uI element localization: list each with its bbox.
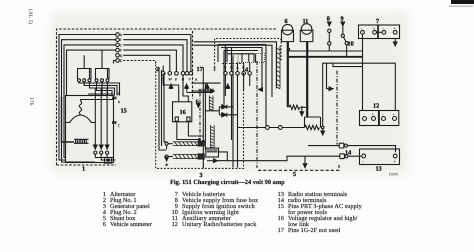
battery earth arrow (394, 39, 396, 47)
wires from plug pins to alternator (79, 82, 120, 96)
svg-text:1: 1 (82, 165, 85, 172)
svg-text:17: 17 (197, 66, 203, 73)
shunt resistor B (305, 125, 320, 129)
regulator feed wires (163, 75, 188, 102)
svg-text:A: A (118, 100, 121, 104)
svg-text:15: 15 (121, 108, 127, 115)
outer dashed enclosure right segment (192, 31, 194, 99)
wire cross-gap run b (194, 45, 273, 97)
svg-text:12: 12 (373, 103, 379, 110)
svg-text:13: 13 (376, 166, 382, 173)
pin letters F A T (118, 92, 121, 128)
svg-text:D609: D609 (389, 172, 398, 177)
wire feeder to diodes (224, 51, 258, 105)
wire top run 1 (123, 35, 191, 72)
ignition switch symbol (342, 22, 344, 27)
battery terminals (361, 30, 365, 34)
alternator phase wire 3 (106, 88, 108, 150)
shunt box 5 outline (305, 117, 321, 128)
phase pin arrows and circles (94, 147, 96, 150)
outer dashed enclosure bottom segment (57, 164, 117, 166)
voltage regulator box 16 (173, 102, 192, 122)
junction at shunt A (301, 106, 303, 108)
plug No.2 row circles (224, 72, 228, 76)
radio terminal pair (266, 126, 270, 130)
node column: terminal A (116, 33, 120, 37)
svg-text:16: 16 (180, 109, 186, 116)
alternator stator hump (66, 115, 95, 123)
diode input bracket (205, 107, 221, 115)
node column: terminal D (116, 48, 120, 52)
vehicle ammeter body (282, 30, 294, 41)
node column: terminal B (116, 38, 120, 42)
legend column 1 (92, 192, 152, 228)
vehicle battery box (359, 25, 378, 39)
hatched cable vertical lower (211, 125, 215, 149)
diode D2 (222, 113, 227, 117)
svg-text:+: + (394, 26, 396, 30)
wire long vertical to panel bottom (232, 55, 234, 167)
alternator brush comb (74, 139, 89, 143)
wire loop under 17 (191, 83, 220, 91)
pack terminals (363, 117, 367, 121)
label 3 with tick (202, 163, 204, 168)
alternator field taps (81, 94, 114, 101)
wire cross-gap run a (194, 42, 277, 88)
wire left bundle U3 (64, 45, 116, 158)
plug No.2 pin letters (224, 65, 245, 69)
svg-text:F: F (120, 49, 122, 53)
alternator phase wire 2 (100, 88, 102, 150)
scan veil over diagram (52, 12, 408, 174)
panel junction blob (198, 138, 201, 141)
battery feed wire down to pack (362, 34, 364, 110)
pins 17 sub-box bottom with hatch (187, 89, 213, 93)
svg-text:5: 5 (293, 171, 296, 178)
radio station terminal box 13 (360, 149, 400, 165)
svg-text:A: A (120, 33, 123, 37)
plug No.1 riser wires (162, 66, 164, 72)
diode D1 (222, 105, 227, 109)
scan artifact: grey smudge under bar (449, 6, 473, 7)
wire top run 2 (123, 40, 187, 72)
plug No.2 riser wires (225, 45, 255, 72)
wire left bundle U2 (62, 40, 116, 162)
node column: terminal C (116, 43, 120, 47)
plug No.1 row circles (161, 72, 165, 76)
plug P2 (right bracket) (96, 50, 110, 79)
junction at shunt B (321, 126, 324, 129)
legend column 3 (270, 192, 362, 234)
regulator terminals (175, 117, 178, 121)
plug No.2 nested feeder b (221, 48, 262, 90)
pack supply loop (323, 63, 396, 126)
plug P2 pin circles (95, 79, 98, 82)
branch to shunt box with arrow (304, 156, 306, 168)
wire top run 3 (123, 45, 183, 72)
panel inner vertical pair (203, 67, 205, 168)
svg-text:F: F (118, 92, 120, 96)
small pin arrows under row 2 (170, 84, 173, 89)
svg-text:9: 9 (341, 16, 344, 23)
panel dash-dot spine (199, 93, 201, 137)
alternator field L-bar (62, 97, 75, 142)
shunt feed box (206, 148, 219, 157)
wire top run 5 (long vertical) (123, 55, 170, 71)
hatched cable top right (276, 46, 280, 89)
svg-text:W: W (168, 77, 172, 81)
legend column 2 (160, 192, 258, 228)
scan artifact: black bar top right (451, 0, 474, 4)
wire feeder to radio terminal pair (265, 45, 267, 126)
cable strip lower with connectors (173, 154, 198, 158)
wire top run 4 with link arrow (123, 50, 176, 71)
svg-text:F: F (175, 77, 177, 81)
arrowed wire to radio connectors (207, 160, 218, 162)
panel pin arrows lower left (166, 145, 168, 161)
phase bus (95, 154, 115, 160)
plug P1 (left bracket) (78, 55, 92, 79)
wire top run 6 dashed to panel (123, 61, 156, 65)
svg-text:V: V (188, 77, 191, 81)
svg-text:+: + (372, 113, 374, 117)
margin text (AL 5) rotated (27, 9, 33, 24)
alternator terminal bars right edge (112, 97, 117, 123)
pin letters for column (120, 33, 123, 63)
plug No.2 drop wires (225, 75, 249, 167)
svg-text:3: 3 (200, 172, 203, 179)
hatched cable vertical upper (209, 96, 213, 111)
outer dashed enclosure (vehicle boundary) (57, 29, 278, 165)
wire ammeters to battery (289, 56, 363, 58)
plug No.2 dashed box (215, 39, 281, 72)
pack second feeder (333, 63, 363, 66)
pass-through box on border (105, 158, 112, 164)
connector 14a (339, 143, 344, 148)
margin page number 176 rotated (28, 97, 34, 105)
wire left bundle U1 (59, 35, 116, 161)
alternator U-frame box (66, 96, 114, 163)
auxiliary ammeter body (300, 30, 313, 41)
plug No.1 pin letters (162, 77, 198, 81)
ignition wire down (346, 45, 348, 57)
shunt resistor A (289, 105, 300, 109)
connector 14b (340, 154, 345, 159)
panel left riser wires (159, 67, 167, 150)
auxiliary ammeter lead (thick) (306, 42, 308, 118)
node column: terminal F (116, 59, 120, 63)
dash-dot boundary vertical (256, 61, 258, 168)
plug No.2 inner dotted box (238, 54, 265, 63)
alternator rotor winding squiggle (79, 101, 81, 115)
link arrow into boundary (327, 63, 334, 88)
vehicle ammeter lead (thick) (287, 42, 289, 108)
radio batteries pack box (360, 111, 379, 126)
svg-text:+: + (393, 113, 395, 117)
plug No.2 nested feeder c (227, 48, 254, 63)
svg-text:8: 8 (327, 16, 330, 23)
wire left bundle U4 to alternator (67, 50, 116, 95)
plug No.2 nested feeder a (218, 45, 266, 63)
svg-text:10: 10 (348, 41, 354, 48)
caption (170, 179, 286, 186)
generator panel dashed box (156, 64, 244, 169)
svg-text:K: K (120, 54, 123, 58)
svg-text:7: 7 (376, 18, 379, 25)
cable strip upper with connectors (173, 142, 198, 146)
dash-dot boundary vertical 2 (336, 71, 338, 145)
fuse feed symbol (328, 22, 330, 27)
dashed boundary bottom link (258, 164, 339, 171)
node column: terminal E (116, 54, 120, 58)
alternator phase wire 1 (94, 88, 96, 150)
svg-text:A: A (195, 77, 198, 81)
plug P1 pin circles (78, 79, 81, 82)
svg-text:+: + (373, 26, 375, 30)
